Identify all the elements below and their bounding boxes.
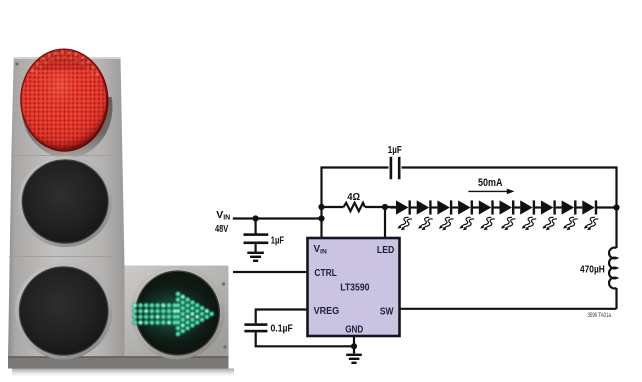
wire VIN input bbox=[233, 217, 322, 219]
LED D6 bbox=[500, 200, 516, 230]
wire CTRL bbox=[233, 271, 308, 273]
LED D10 bbox=[582, 200, 598, 230]
panel body vertical bbox=[8, 57, 125, 358]
red light cup bbox=[22, 56, 113, 158]
wire resistor rail left bbox=[322, 206, 344, 208]
LED D3 bbox=[437, 200, 453, 230]
LED D4 bbox=[458, 200, 474, 230]
svg-text:1µF: 1µF bbox=[388, 144, 402, 156]
seam lines bbox=[11, 155, 121, 157]
capacitor C2 1uF top bbox=[388, 144, 402, 179]
op IC U1 LT3590 bbox=[308, 238, 400, 336]
wire resistor to LED chain bbox=[365, 206, 396, 208]
node rail/top junction bbox=[318, 204, 324, 210]
bottom dark strip bbox=[8, 357, 229, 369]
node LED pin junction bbox=[382, 204, 388, 210]
wire SW bbox=[400, 308, 617, 310]
label 50mA + current arrow bbox=[468, 177, 514, 194]
middle dark light bbox=[18, 156, 112, 247]
green arrow light bbox=[131, 266, 225, 360]
label VIN 48V bbox=[215, 209, 230, 235]
svg-text:GND: GND bbox=[345, 324, 363, 335]
svg-text:CTRL: CTRL bbox=[314, 268, 336, 279]
capacitor C1 1uF input bbox=[244, 219, 285, 253]
svg-text:LED: LED bbox=[377, 245, 394, 256]
capacitor C3 0.1uF bbox=[244, 323, 293, 335]
LED D5 bbox=[479, 200, 495, 230]
svg-text:SW: SW bbox=[380, 307, 394, 318]
wire VREG bbox=[256, 310, 308, 324]
wire GND pin bbox=[353, 336, 355, 354]
traffic light photo bbox=[8, 49, 234, 377]
green housing bbox=[125, 266, 229, 359]
svg-text:VREG: VREG bbox=[314, 306, 340, 317]
wire 0.1uF to ground node bbox=[256, 332, 354, 346]
svg-text:50mA: 50mA bbox=[478, 177, 503, 189]
node VIN/IC junction bbox=[318, 215, 324, 221]
svg-text:4Ω: 4Ω bbox=[347, 191, 360, 203]
wire LED chain connecting segments bbox=[390, 206, 616, 208]
LED D1 bbox=[396, 200, 412, 230]
svg-text:48V: 48V bbox=[215, 223, 228, 235]
ground shadow bbox=[12, 369, 234, 378]
ground input cap bbox=[247, 252, 264, 262]
inductor L1 470uH bbox=[580, 248, 617, 309]
red lens bbox=[21, 50, 106, 150]
svg-text:0.1µF: 0.1µF bbox=[271, 323, 294, 335]
node VIN junction cap bbox=[253, 215, 259, 221]
wire top rail left segment bbox=[322, 168, 389, 239]
screws bbox=[15, 62, 18, 65]
node right rail junction bbox=[613, 204, 619, 210]
node GND junction bbox=[351, 343, 357, 349]
svg-text:1µF: 1µF bbox=[271, 235, 285, 247]
LED D9 bbox=[562, 200, 578, 230]
LED D8 bbox=[541, 200, 557, 230]
svg-text:VIN: VIN bbox=[216, 209, 230, 222]
bottom dark light bbox=[15, 263, 112, 360]
LED D2 bbox=[417, 200, 433, 230]
ground IC bbox=[346, 354, 362, 364]
svg-text:470µH: 470µH bbox=[580, 264, 605, 276]
svg-text:LT3590: LT3590 bbox=[340, 282, 370, 293]
LED D7 bbox=[520, 200, 536, 230]
wire LED pin drop bbox=[384, 207, 386, 238]
wire top rail right segment bbox=[402, 168, 617, 249]
svg-text:3590 TA01a: 3590 TA01a bbox=[588, 313, 612, 319]
resistor R1 4ohm body bbox=[344, 203, 365, 211]
